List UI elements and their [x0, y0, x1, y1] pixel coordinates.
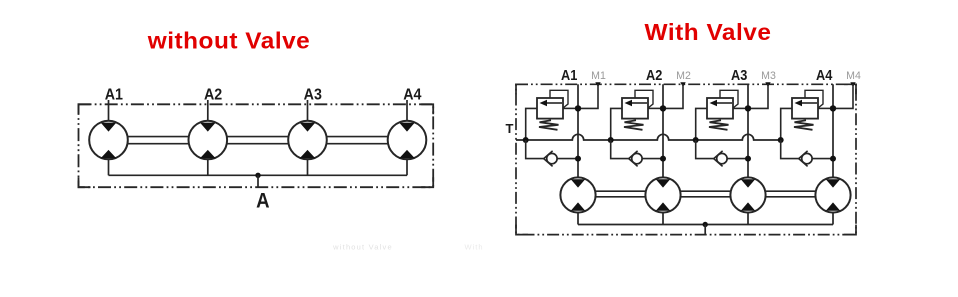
wire: RV3 inlet to T bus [696, 108, 707, 140]
shaft coupling motors 3-4 (right diagram) [765, 190, 816, 192]
svg-text:A2: A2 [646, 67, 663, 83]
wire: motor 4 to bottom bus (right) [832, 212, 834, 225]
wire: motor 1 to bottom bus [108, 158, 110, 175]
wire: T bus down to check valve CV1 [526, 140, 544, 159]
svg-text:With Valve: With Valve [645, 19, 772, 45]
border corner marks (right enclosure) [516, 84, 528, 94]
wire: port A1 line down to motor [577, 84, 579, 178]
svg-text:A3: A3 [304, 87, 322, 104]
wire: port A4 to motor 4 [406, 100, 408, 122]
T bus wire with crossover humps [516, 134, 781, 140]
svg-text:without Valve: without Valve [332, 243, 393, 252]
wire: RV2 inlet to T bus [611, 108, 622, 140]
wire: port A3 to motor 3 [307, 100, 309, 122]
junction node A4/M4/RV4 [830, 105, 836, 111]
port mark M1 on border [595, 82, 600, 87]
relief valve RV1 flow arrow [546, 102, 562, 104]
wire: RV4 inlet to T bus [781, 108, 792, 140]
junction node CV3/A3 [745, 156, 751, 162]
wire: T bus down to check valve CV4 [781, 140, 799, 159]
check valve CV4 [799, 151, 812, 167]
svg-text:M4: M4 [846, 70, 861, 82]
wire: M3 gauge line [748, 84, 768, 108]
shaft coupling motors 1-2 (double line) [127, 136, 189, 138]
wire: T bus down to check valve CV2 [611, 140, 629, 159]
relief valve RV3 body [707, 98, 733, 119]
junction node CV4/A4 [830, 156, 836, 162]
junction node A3/M3/RV3 [745, 105, 751, 111]
hydraulic motor M4 (right diagram) [815, 177, 850, 212]
relief valve RV4 flow arrow [801, 102, 817, 104]
wire: motor 1 to bottom bus (right) [577, 212, 579, 225]
svg-text:T: T [506, 121, 514, 136]
hydraulic motor M2 (left diagram) [189, 121, 228, 160]
junction node T bus unit 1 [523, 137, 529, 143]
relief valve RV2 body [622, 98, 648, 119]
hydraulic motor M2 (right diagram) [645, 177, 680, 212]
enclosure border (left manifold, dash-dot) [79, 104, 434, 187]
junction node CV2/A2 [660, 156, 666, 162]
wire: bottom node to border [704, 225, 706, 236]
wire: motor 3 to bottom bus [307, 158, 309, 175]
relief valve RV1 spring [539, 120, 559, 130]
check valve CV2 [629, 151, 642, 167]
port mark M3 on border [765, 82, 770, 87]
hydraulic motor M4 (left diagram) [388, 121, 427, 160]
svg-text:A4: A4 [816, 67, 833, 83]
svg-text:without Valve: without Valve [147, 28, 311, 54]
wire: port A1 to motor 1 [108, 100, 110, 122]
wire: motor 4 to bottom bus [406, 158, 408, 175]
wire: motor 3 to bottom bus (right) [747, 212, 749, 225]
svg-text:M1: M1 [591, 70, 606, 82]
check valve CV1 [544, 151, 557, 167]
bottom bus wire (left diagram) [109, 174, 408, 176]
relief valve RV2 pilot line [635, 90, 653, 108]
relief valve RV1 body [537, 98, 563, 119]
relief valve RV4 body [792, 98, 818, 119]
junction node bottom bus [703, 222, 708, 227]
svg-text:M3: M3 [761, 70, 776, 82]
border corner marks (left enclosure) [79, 104, 91, 114]
relief valve RV2 spring [624, 120, 644, 130]
wire: RV4 outlet to node [818, 107, 833, 109]
junction node A1/M1/RV1 [575, 105, 581, 111]
wire: port A3 line down to motor [747, 84, 749, 178]
svg-text:With: With [465, 243, 484, 252]
svg-text:A1: A1 [105, 87, 123, 104]
wire: CV1 to A1 line [557, 158, 578, 160]
wire: CV2 to A2 line [642, 158, 663, 160]
svg-text:A: A [256, 189, 269, 212]
wire: node A to border [257, 175, 259, 188]
wire: CV4 to A4 line [812, 158, 833, 160]
hydraulic motor M3 (right diagram) [730, 177, 765, 212]
wire: M1 gauge line [578, 84, 598, 108]
relief valve RV4 spring [794, 120, 814, 130]
svg-text:A3: A3 [731, 67, 748, 83]
wire: RV2 outlet to node [648, 107, 663, 109]
shaft coupling motors 1-2 (right diagram) [595, 190, 646, 192]
enclosure border (right manifold, dash-dot) [516, 84, 856, 234]
relief valve RV1 pilot line [550, 90, 568, 108]
wire: motor 2 to bottom bus (right) [662, 212, 664, 225]
wire: port A2 line down to motor [662, 84, 664, 178]
check valve CV3 [714, 151, 727, 167]
wire: motor 2 to bottom bus [207, 158, 209, 175]
junction node T bus unit 2 [608, 137, 614, 143]
relief valve RV3 flow arrow [716, 102, 732, 104]
svg-text:A4: A4 [403, 87, 422, 104]
relief valve RV4 pilot line [805, 90, 823, 108]
svg-text:A2: A2 [204, 87, 222, 104]
wire: RV1 inlet to T bus [526, 108, 537, 140]
junction node T bus unit 3 [693, 137, 699, 143]
wire: RV3 outlet to node [733, 107, 748, 109]
shaft coupling motors 2-3 (right diagram) [680, 190, 731, 192]
port mark M4 on border [850, 82, 855, 87]
junction node A2/M2/RV2 [660, 105, 666, 111]
wire: T bus down to check valve CV3 [696, 140, 714, 159]
svg-text:M2: M2 [676, 70, 691, 82]
wire: M2 gauge line [663, 84, 683, 108]
svg-text:A1: A1 [561, 67, 578, 83]
wire: RV1 outlet to node [563, 107, 578, 109]
relief valve RV2 flow arrow [631, 102, 647, 104]
bottom bus wire (right diagram) [578, 224, 833, 226]
wire: port A2 to motor 2 [207, 100, 209, 122]
wire: CV3 to A3 line [727, 158, 748, 160]
junction node T bus unit 4 [778, 137, 784, 143]
shaft coupling motors 2-3 (double line) [227, 136, 289, 138]
hydraulic motor M3 (left diagram) [288, 121, 327, 160]
junction node A [255, 173, 260, 178]
wire: port A4 line down to motor [832, 84, 834, 178]
shaft coupling motors 3-4 (double line) [326, 136, 388, 138]
hydraulic motor M1 (right diagram) [560, 177, 595, 212]
hydraulic motor M1 (left diagram) [89, 121, 128, 160]
port mark M2 on border [680, 82, 685, 87]
relief valve RV3 pilot line [720, 90, 738, 108]
wire: M4 gauge line [833, 84, 853, 108]
relief valve RV3 spring [709, 120, 729, 130]
junction node CV1/A1 [575, 156, 581, 162]
